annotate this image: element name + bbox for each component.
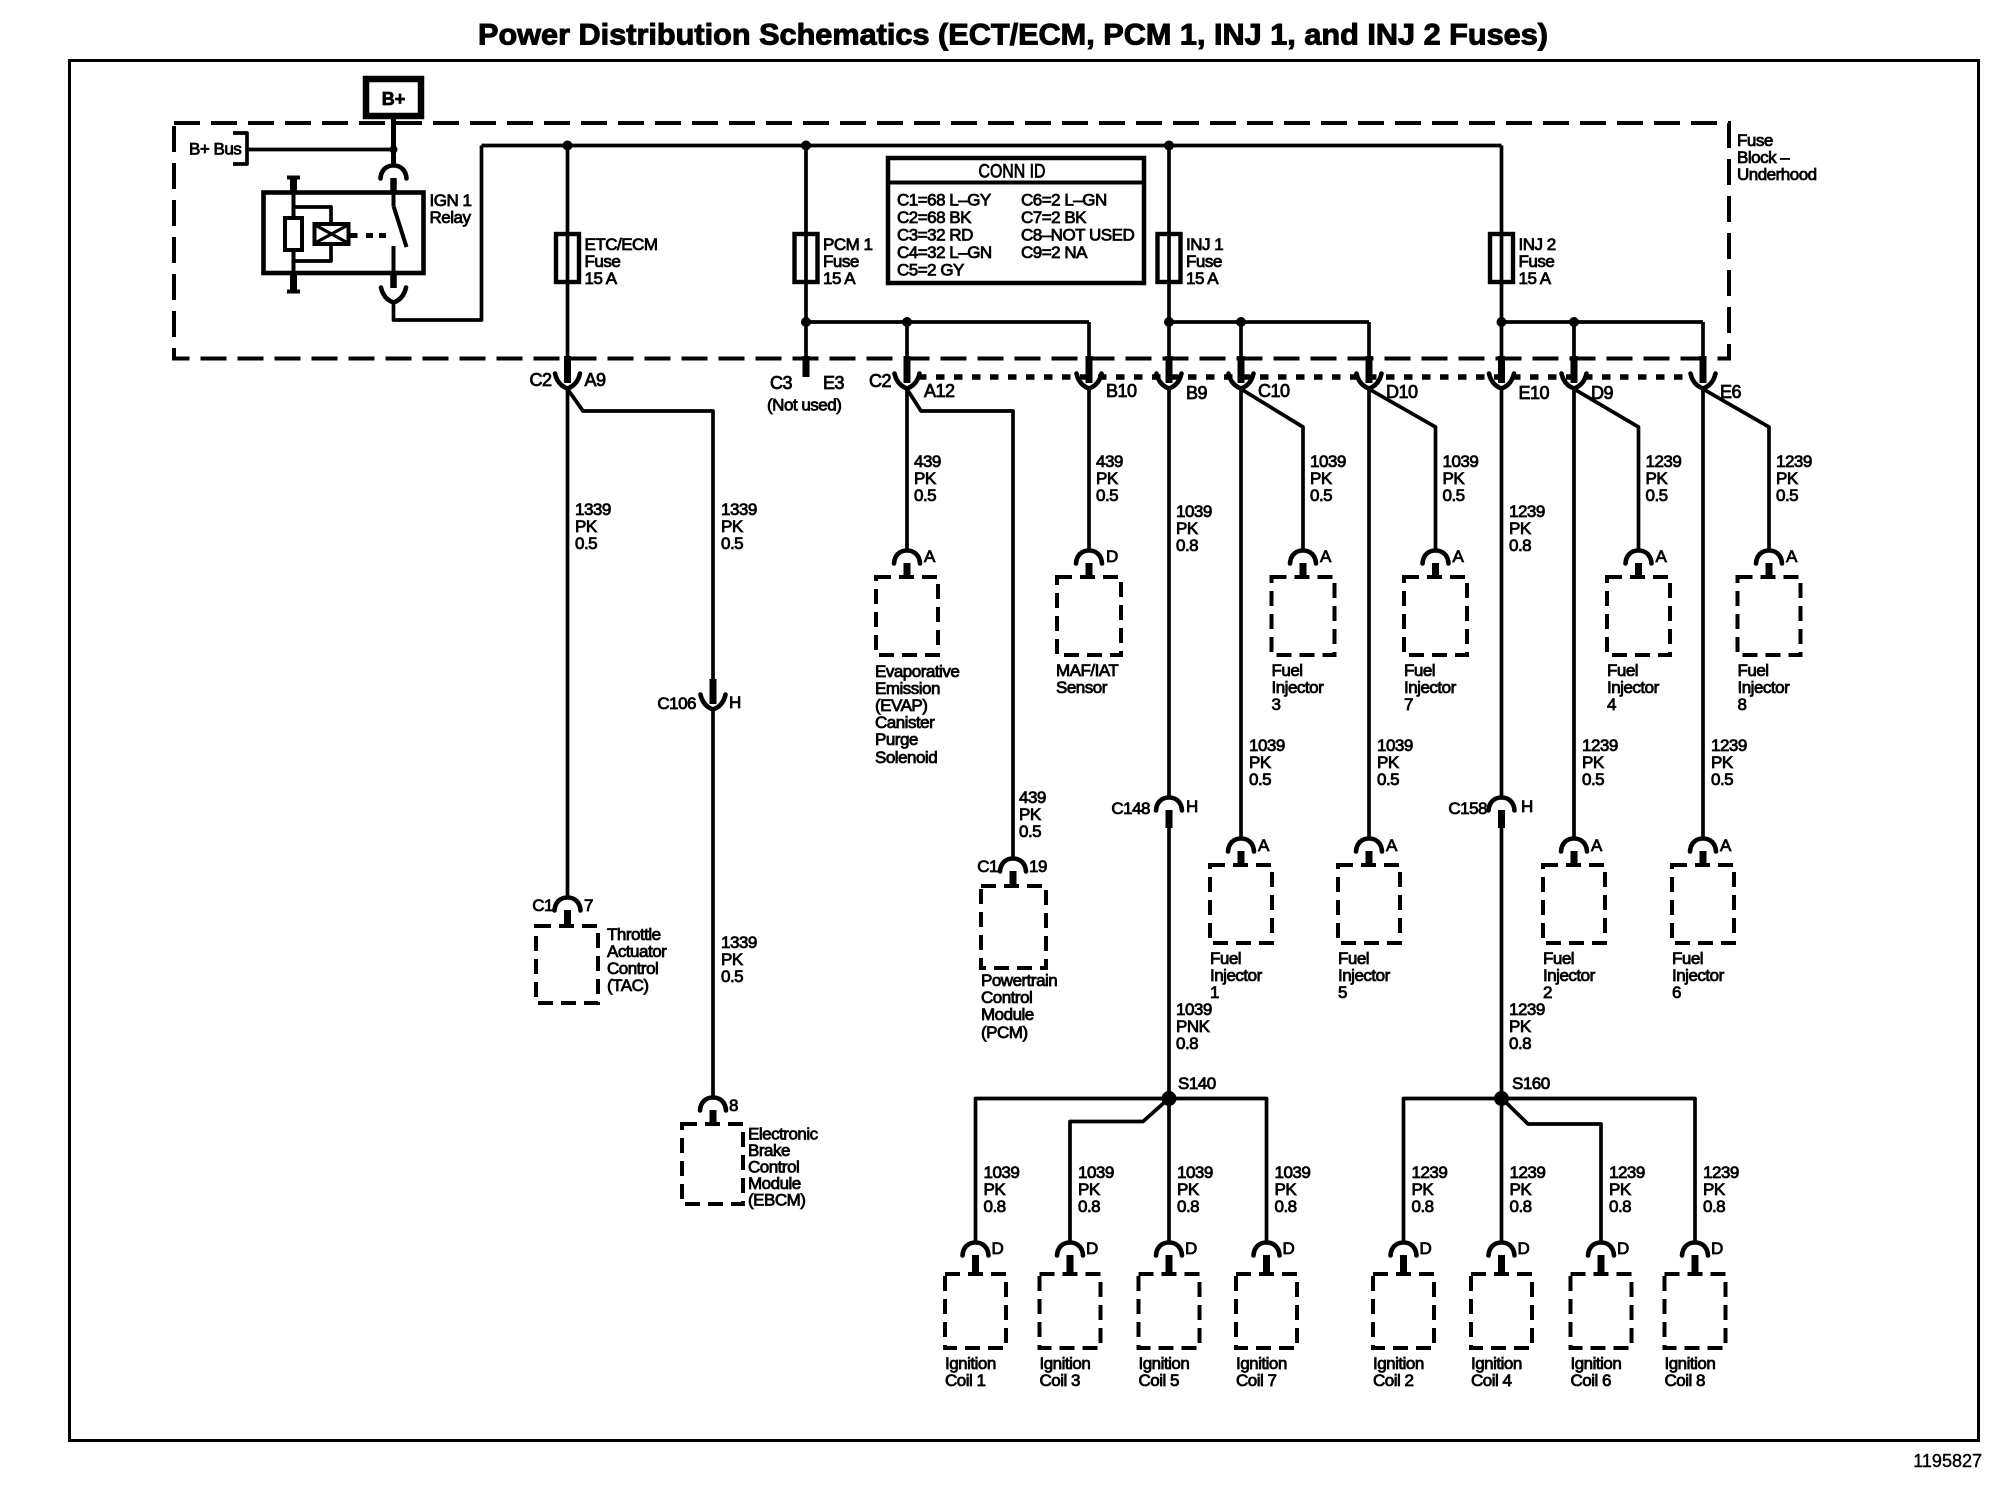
label Electronic Brake Control Module (EBCM) [748, 1125, 819, 1210]
connector D10 at fuse block [1357, 356, 1419, 402]
label Powertrain Control Module (PCM) [981, 971, 1057, 1042]
label Fuel Injector 8 [1738, 661, 1791, 714]
svg-text:0.8: 0.8 [1703, 1197, 1725, 1216]
svg-text:0.8: 0.8 [1509, 536, 1531, 555]
svg-text:CONN ID: CONN ID [979, 162, 1046, 183]
svg-text:0.8: 0.8 [1177, 1197, 1199, 1216]
svg-text:C1=68 L–GY: C1=68 L–GY [897, 191, 991, 210]
svg-text:A12: A12 [924, 381, 955, 401]
component Ignition Coil 5 dashed box [1139, 1274, 1200, 1348]
component Fuel Injector 6 dashed box [1672, 865, 1734, 943]
svg-text:3: 3 [1272, 695, 1281, 714]
label Ignition Coil 6 [1571, 1354, 1622, 1390]
connector pin A at Fuel Injector 2 [1561, 836, 1603, 866]
svg-text:7: 7 [1404, 695, 1413, 714]
connector pin D at Ignition Coil 8 [1682, 1239, 1723, 1275]
svg-text:C7=2 BK: C7=2 BK [1021, 208, 1087, 227]
svg-text:Coil 6: Coil 6 [1571, 1371, 1612, 1390]
label Evaporative Emission (EVAP) Canister Purge Solenoid [875, 662, 959, 767]
svg-text:A: A [924, 547, 936, 566]
label Ignition Coil 7 [1236, 1354, 1287, 1390]
module TAC dashed box [536, 926, 598, 1003]
component Fuel Injector 7 dashed box [1404, 577, 1467, 655]
component Fuel Injector 5 dashed box [1338, 865, 1400, 943]
svg-text:0.5: 0.5 [721, 967, 743, 986]
wire ETC/ECM fuse output [566, 282, 570, 358]
connector pin A at Fuel Injector 4 [1626, 547, 1668, 578]
svg-text:5: 5 [1338, 983, 1347, 1002]
connector C1 pin 7 at TAC [532, 896, 593, 927]
B+ terminal box [366, 79, 421, 116]
connector pin A at Fuel Injector 3 [1290, 547, 1332, 578]
svg-text:D: D [1617, 1239, 1629, 1258]
connector pin 8 at EBCM [700, 1096, 738, 1125]
wire B+ Bus to relay feed [247, 148, 394, 152]
wire B10 to MAF/IAT sensor [1087, 389, 1091, 551]
component Ignition Coil 1 dashed box [945, 1274, 1006, 1348]
junction bus / PCM 1 fuse [801, 141, 811, 151]
label Ignition Coil 5 [1139, 1354, 1190, 1390]
connector pin A at Fuel Injector 5 [1356, 836, 1398, 866]
junction INJ1 branch [1164, 317, 1174, 327]
svg-text:C3: C3 [770, 373, 792, 393]
svg-text:A9: A9 [585, 370, 607, 390]
svg-text:Coil 5: Coil 5 [1139, 1371, 1180, 1390]
svg-text:0.5: 0.5 [575, 534, 597, 553]
connector C2 A12 at fuse block [869, 356, 955, 401]
wire S160 to Ignition Coil 2 [1404, 1099, 1502, 1244]
svg-text:C5=2 GY: C5=2 GY [897, 261, 964, 280]
module PCM dashed box [981, 886, 1046, 968]
label Fuse Block - Underhood [1737, 131, 1817, 184]
svg-text:C6=2 L–GN: C6=2 L–GN [1021, 191, 1107, 210]
connector B9 at fuse block [1157, 356, 1208, 403]
svg-text:C1: C1 [532, 896, 553, 915]
svg-text:0.8: 0.8 [1609, 1197, 1631, 1216]
wire C158 to splice S160 [1500, 827, 1504, 1099]
svg-text:Coil 2: Coil 2 [1373, 1371, 1414, 1390]
connector pin A at Fuel Injector 1 [1228, 836, 1270, 866]
svg-text:B10: B10 [1106, 381, 1137, 401]
component Ignition Coil 7 dashed box [1236, 1274, 1297, 1348]
svg-text:Underhood: Underhood [1737, 165, 1817, 184]
wire main supply bus [482, 144, 1502, 148]
splice S140 [1162, 1074, 1216, 1106]
svg-text:D: D [992, 1239, 1004, 1258]
svg-text:A: A [1320, 547, 1332, 566]
wire to Fuel Injector 2 [1572, 389, 1576, 839]
fuse block underhood dashed boundary [174, 123, 1729, 359]
wire S140 to Ignition Coil 5 [1167, 1099, 1171, 1244]
wire to Fuel Injector 5 [1367, 389, 1371, 839]
component Fuel Injector 1 dashed box [1210, 865, 1272, 943]
B+ Bus tap bracket [189, 133, 247, 164]
wire bus to ETC/ECM fuse [566, 146, 570, 235]
wire S160 to Ignition Coil 8 [1502, 1099, 1696, 1244]
connector pin D at Ignition Coil 6 [1588, 1239, 1629, 1275]
svg-text:Coil 1: Coil 1 [945, 1371, 986, 1390]
svg-text:C106: C106 [657, 694, 696, 713]
wire drop to B10 [1087, 322, 1091, 358]
svg-text:Coil 3: Coil 3 [1040, 1371, 1081, 1390]
junction branch / D9 drop [1569, 317, 1579, 327]
svg-text:B+: B+ [382, 89, 406, 109]
wire S160 to Ignition Coil 4 [1500, 1099, 1504, 1244]
component Ignition Coil 2 dashed box [1373, 1274, 1434, 1348]
connector C2 A9 at fuse block [529, 356, 606, 390]
component Fuel Injector 4 dashed box [1607, 577, 1670, 655]
label Fuel Injector 2 [1543, 949, 1596, 1002]
svg-text:1195827: 1195827 [1913, 1451, 1982, 1471]
wire A12 to EVAP solenoid [905, 389, 909, 551]
svg-text:0.8: 0.8 [1078, 1197, 1100, 1216]
svg-text:C9=2 NA: C9=2 NA [1021, 243, 1088, 262]
svg-text:0.5: 0.5 [721, 534, 743, 553]
component Ignition Coil 8 dashed box [1665, 1274, 1726, 1348]
svg-text:4: 4 [1607, 695, 1616, 714]
svg-text:7: 7 [584, 896, 593, 915]
splice S160 [1494, 1074, 1550, 1106]
svg-text:H: H [729, 693, 741, 712]
connector at IGN 1 relay output [381, 273, 406, 303]
connector pin D at Ignition Coil 1 [963, 1239, 1004, 1275]
svg-text:C2: C2 [869, 371, 891, 391]
svg-text:D: D [1420, 1239, 1432, 1258]
wire drop to C2 A12 [905, 322, 909, 358]
svg-text:0.8: 0.8 [1510, 1197, 1532, 1216]
svg-text:C10: C10 [1258, 381, 1290, 401]
component Fuel Injector 8 dashed box [1738, 577, 1801, 655]
svg-text:A: A [1656, 547, 1668, 566]
junction bus / ETC-ECM fuse [563, 141, 573, 151]
fuse INJ 2 15 A [1490, 234, 1556, 288]
CONN ID legend table [888, 158, 1144, 283]
label Fuel Injector 3 [1272, 661, 1325, 714]
wire A12 branch to PCM [907, 389, 1013, 859]
svg-text:C2: C2 [529, 370, 551, 390]
wire C106 to EBCM [711, 710, 715, 1098]
wire S140 to Ignition Coil 3 [1070, 1101, 1166, 1243]
junction PCM1 branch [801, 317, 811, 327]
svg-text:15 A: 15 A [585, 269, 618, 288]
label Fuel Injector 4 [1607, 661, 1660, 714]
label Fuel Injector 6 [1672, 949, 1725, 1002]
connector pin D at Ignition Coil 2 [1391, 1239, 1432, 1275]
wire INJ 2 fuse output [1500, 282, 1504, 358]
wire to Fuel Injector 6 [1701, 389, 1705, 839]
label Ignition Coil 1 [945, 1354, 996, 1390]
connector C158 pin H [1448, 797, 1532, 828]
fuse INJ 1 15 A [1158, 234, 1224, 288]
svg-text:B9: B9 [1186, 383, 1208, 403]
junction branch / C10 drop [1236, 317, 1246, 327]
label Ignition Coil 4 [1471, 1354, 1522, 1390]
fuse PCM 1 15 A [795, 234, 873, 288]
connector pin D at Ignition Coil 5 [1156, 1239, 1197, 1275]
wire S160 to Ignition Coil 6 [1505, 1101, 1602, 1243]
connector pin A at EVAP [894, 547, 936, 578]
svg-text:0.5: 0.5 [1646, 486, 1668, 505]
fuse ETC/ECM 15 A [556, 234, 658, 288]
connector pin D at Ignition Coil 4 [1489, 1239, 1530, 1275]
svg-text:0.8: 0.8 [984, 1197, 1006, 1216]
wire A9 branch to C106 [568, 389, 714, 679]
wire S140 to Ignition Coil 7 [1169, 1099, 1267, 1244]
svg-text:D: D [1086, 1239, 1098, 1258]
component Ignition Coil 3 dashed box [1040, 1274, 1101, 1348]
label MAF/IAT Sensor [1056, 661, 1118, 697]
svg-text:A: A [1786, 547, 1798, 566]
wire to Fuel Injector 3 [1241, 389, 1303, 551]
svg-text:D10: D10 [1386, 382, 1418, 402]
connector E6 at fuse block [1691, 356, 1742, 402]
label Fuel Injector 7 [1404, 661, 1457, 714]
svg-text:8: 8 [729, 1096, 738, 1115]
svg-text:Solenoid: Solenoid [875, 748, 937, 767]
wire PCM 1 fuse branch to A12 and B10 [806, 320, 1089, 324]
wire to Fuel Injector 8 [1703, 389, 1769, 551]
svg-text:Sensor: Sensor [1056, 678, 1108, 697]
svg-text:C4=32 L–GN: C4=32 L–GN [897, 243, 992, 262]
connector C106 pin H [657, 679, 740, 713]
connector pin D at Ignition Coil 7 [1254, 1239, 1295, 1275]
svg-text:0.8: 0.8 [1412, 1197, 1434, 1216]
connector pin A at Fuel Injector 8 [1756, 547, 1798, 578]
module MAF/IAT dashed box [1057, 577, 1121, 655]
svg-text:Purge: Purge [875, 730, 918, 749]
svg-text:(EBCM): (EBCM) [748, 1191, 805, 1210]
svg-text:15 A: 15 A [1519, 269, 1552, 288]
wire drop to C10 [1239, 322, 1243, 358]
label Ignition Coil 3 [1040, 1354, 1091, 1390]
label Fuel Injector 5 [1338, 949, 1391, 1002]
svg-text:B+ Bus: B+ Bus [189, 140, 241, 159]
svg-text:D: D [1518, 1239, 1530, 1258]
svg-text:0.8: 0.8 [1176, 536, 1198, 555]
svg-text:(Not used): (Not used) [767, 396, 841, 415]
svg-text:Coil 7: Coil 7 [1236, 1371, 1277, 1390]
junction B+ feed / B+ bus [390, 146, 398, 154]
svg-text:0.5: 0.5 [1377, 770, 1399, 789]
svg-text:Power Distribution Schematics: Power Distribution Schematics (ECT/ECM, … [478, 19, 1548, 52]
svg-text:C1: C1 [977, 857, 998, 876]
connector at IGN 1 relay input [381, 166, 407, 194]
svg-text:S140: S140 [1178, 1074, 1216, 1093]
connector pin D at Ignition Coil 3 [1057, 1239, 1098, 1275]
svg-text:0.5: 0.5 [1310, 486, 1332, 505]
svg-text:0.8: 0.8 [1176, 1034, 1198, 1053]
svg-text:Module: Module [981, 1005, 1034, 1024]
svg-text:C8–NOT USED: C8–NOT USED [1021, 226, 1134, 245]
svg-text:A: A [1386, 836, 1398, 855]
wire PCM 1 fuse output [804, 282, 808, 358]
svg-text:Coil 8: Coil 8 [1665, 1371, 1706, 1390]
connector pin D at MAF/IAT [1076, 547, 1118, 578]
svg-text:H: H [1521, 797, 1533, 816]
svg-text:A: A [1591, 836, 1603, 855]
svg-text:A: A [1453, 547, 1465, 566]
connector C148 pin H [1111, 797, 1197, 828]
junction INJ2 branch [1497, 317, 1507, 327]
wire B+ feed down from B+ box [391, 114, 396, 166]
connector C10 at fuse block [1229, 356, 1291, 401]
wire drop to E6 [1701, 322, 1705, 358]
wire drop to D9 [1572, 322, 1576, 358]
svg-text:A: A [1720, 836, 1732, 855]
wire C148 to splice S140 [1167, 827, 1171, 1099]
svg-text:0.8: 0.8 [1275, 1197, 1297, 1216]
wire bus to INJ 1 fuse [1167, 146, 1171, 235]
module EVAP dashed box [876, 577, 938, 655]
junction branch / A12 drop [902, 317, 912, 327]
svg-text:D: D [1711, 1239, 1723, 1258]
wire to Fuel Injector 7 [1369, 389, 1436, 551]
connector pin A at Fuel Injector 6 [1690, 836, 1732, 866]
svg-text:(TAC): (TAC) [607, 976, 649, 995]
svg-text:0.8: 0.8 [1509, 1034, 1531, 1053]
component Fuel Injector 3 dashed box [1272, 577, 1335, 655]
svg-text:S160: S160 [1512, 1074, 1550, 1093]
wire E10 to C158 [1500, 389, 1504, 798]
svg-text:0.5: 0.5 [1096, 486, 1118, 505]
svg-text:15 A: 15 A [1186, 269, 1219, 288]
svg-text:15 A: 15 A [823, 269, 856, 288]
module EBCM dashed box [682, 1124, 743, 1204]
label Fuel Injector 1 [1210, 949, 1263, 1002]
wire INJ 1 fuse branch to C10 and D10 [1169, 320, 1369, 324]
connector pin A at Fuel Injector 7 [1423, 547, 1465, 578]
svg-text:E3: E3 [823, 373, 845, 393]
label Ignition Coil 8 [1665, 1354, 1716, 1390]
connector E10 at fuse block [1489, 356, 1550, 403]
label Ignition Coil 2 [1373, 1354, 1424, 1390]
svg-text:E10: E10 [1519, 383, 1550, 403]
wire bus to INJ 2 fuse [1500, 146, 1504, 235]
svg-text:0.5: 0.5 [1776, 486, 1798, 505]
svg-text:D: D [1185, 1239, 1197, 1258]
junction bus / INJ 1 fuse [1164, 141, 1174, 151]
label Throttle Actuator Control (TAC) [607, 925, 667, 995]
svg-text:(PCM): (PCM) [981, 1023, 1028, 1042]
svg-text:Coil 4: Coil 4 [1471, 1371, 1512, 1390]
svg-text:0.5: 0.5 [1443, 486, 1465, 505]
connector C3 E3 not used [767, 356, 845, 415]
component Ignition Coil 4 dashed box [1471, 1274, 1532, 1348]
wire drop to D10 [1367, 322, 1371, 358]
svg-text:0.5: 0.5 [1711, 770, 1733, 789]
svg-text:D: D [1106, 547, 1118, 566]
svg-text:H: H [1186, 797, 1198, 816]
svg-text:0.5: 0.5 [1249, 770, 1271, 789]
svg-text:0.5: 0.5 [914, 486, 936, 505]
component Fuel Injector 2 dashed box [1543, 865, 1605, 943]
svg-text:C158: C158 [1448, 799, 1487, 818]
svg-text:Relay: Relay [430, 208, 472, 227]
connector C1 pin 19 at PCM [977, 857, 1047, 887]
connector B10 at fuse block [1077, 356, 1138, 401]
wire B9 to C148 [1167, 389, 1171, 798]
dotted connector row line [918, 374, 1692, 380]
svg-text:C148: C148 [1111, 799, 1150, 818]
wire to Fuel Injector 4 [1574, 389, 1639, 551]
component Ignition Coil 6 dashed box [1571, 1274, 1632, 1348]
svg-text:D: D [1283, 1239, 1295, 1258]
svg-text:19: 19 [1029, 857, 1047, 876]
wire S140 to Ignition Coil 1 [976, 1099, 1170, 1244]
svg-text:C2=68 BK: C2=68 BK [897, 208, 972, 227]
wire relay output to supply bus riser [394, 146, 482, 321]
wire INJ 1 fuse output [1167, 282, 1171, 358]
svg-text:8: 8 [1738, 695, 1747, 714]
svg-text:0.5: 0.5 [1582, 770, 1604, 789]
wire A9 to TAC C1 pin 7 [566, 389, 570, 898]
wire to Fuel Injector 1 [1239, 389, 1243, 839]
svg-text:A: A [1258, 836, 1270, 855]
svg-text:6: 6 [1672, 983, 1681, 1002]
connector D9 at fuse block [1562, 356, 1614, 403]
wire bus to PCM 1 fuse [804, 146, 808, 235]
wire INJ 2 fuse branch to D9 and E6 [1502, 320, 1704, 324]
relay IGN 1 [264, 178, 472, 292]
svg-text:C3=32 RD: C3=32 RD [897, 226, 973, 245]
svg-text:0.5: 0.5 [1019, 822, 1041, 841]
